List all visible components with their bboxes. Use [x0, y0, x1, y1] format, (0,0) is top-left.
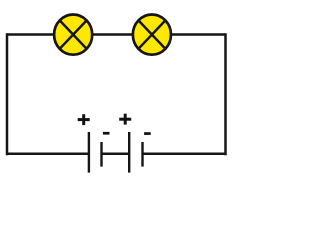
label - (cell 1 negative) — [103, 132, 110, 135]
wire left vertical — [6, 33, 9, 155]
wire top-right segment — [170, 33, 226, 36]
lamp L1 — [54, 14, 92, 54]
label + (cell 1 positive) — [78, 114, 90, 125]
wire bottom-left segment — [7, 153, 89, 156]
wire bottom-right segment — [143, 153, 226, 156]
wire between battery cells — [102, 153, 130, 156]
label - (cell 2 negative) — [144, 132, 151, 135]
wire right vertical — [224, 33, 227, 155]
wire top-left segment — [7, 33, 56, 36]
battery cell 1 negative plate — [100, 142, 102, 167]
battery cell 1 positive plate — [88, 132, 90, 173]
label + (cell 2 positive) — [119, 114, 131, 125]
wire between lamps — [91, 33, 134, 36]
lamp L2 — [133, 14, 171, 54]
battery cell 2 positive plate — [128, 132, 130, 173]
battery cell 2 negative plate — [141, 142, 143, 167]
